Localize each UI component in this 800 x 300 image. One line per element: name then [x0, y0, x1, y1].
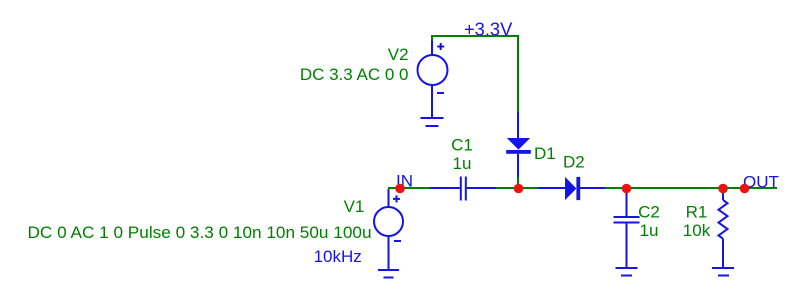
- wire IN to C1: [388, 187, 431, 189]
- wire V2 top stub: [431, 36, 433, 43]
- ground (V1): [378, 270, 399, 278]
- svg-text:1u: 1u: [453, 154, 472, 173]
- junction node R1: [718, 184, 728, 194]
- junction node IN: [395, 184, 405, 194]
- wire C1 to D2: [496, 187, 539, 189]
- wire +3.3V rail top horizontal: [431, 36, 518, 112]
- svg-text:D2: D2: [563, 153, 585, 172]
- ground (C2): [616, 268, 638, 276]
- svg-text:D1: D1: [534, 144, 556, 163]
- svg-text:C1: C1: [451, 136, 473, 155]
- capacitor C2: [614, 188, 640, 268]
- voltage source V2: [418, 41, 448, 118]
- wire D1 to junction: [517, 177, 519, 188]
- ground (V2): [421, 118, 444, 126]
- resistor R1: [719, 188, 728, 268]
- diode D2: [538, 177, 606, 200]
- svg-text:V2: V2: [388, 45, 409, 64]
- voltage source V1: [374, 189, 403, 270]
- svg-text:10kHz: 10kHz: [314, 247, 362, 266]
- diode D1: [506, 112, 531, 178]
- svg-text:DC 0 AC 1 0 Pulse 0 3.3 0 10n: DC 0 AC 1 0 Pulse 0 3.3 0 10n 10n 50u 10…: [28, 223, 372, 242]
- ground (R1): [712, 268, 734, 276]
- junction node C2: [622, 184, 632, 194]
- svg-text:+3.3V: +3.3V: [464, 19, 513, 40]
- svg-text:10k: 10k: [683, 221, 711, 240]
- svg-text:1u: 1u: [640, 221, 659, 240]
- wire R1 to OUT end: [723, 187, 777, 189]
- capacitor C1: [430, 177, 497, 201]
- junction node OUT: [740, 184, 750, 194]
- svg-text:V1: V1: [344, 197, 365, 216]
- svg-text:DC 3.3 AC 0 0: DC 3.3 AC 0 0: [300, 65, 409, 84]
- svg-text:R1: R1: [686, 203, 708, 222]
- svg-text:C2: C2: [638, 203, 660, 222]
- junction node D1/C1: [514, 184, 524, 194]
- wire D2 to R1 junction: [605, 187, 723, 189]
